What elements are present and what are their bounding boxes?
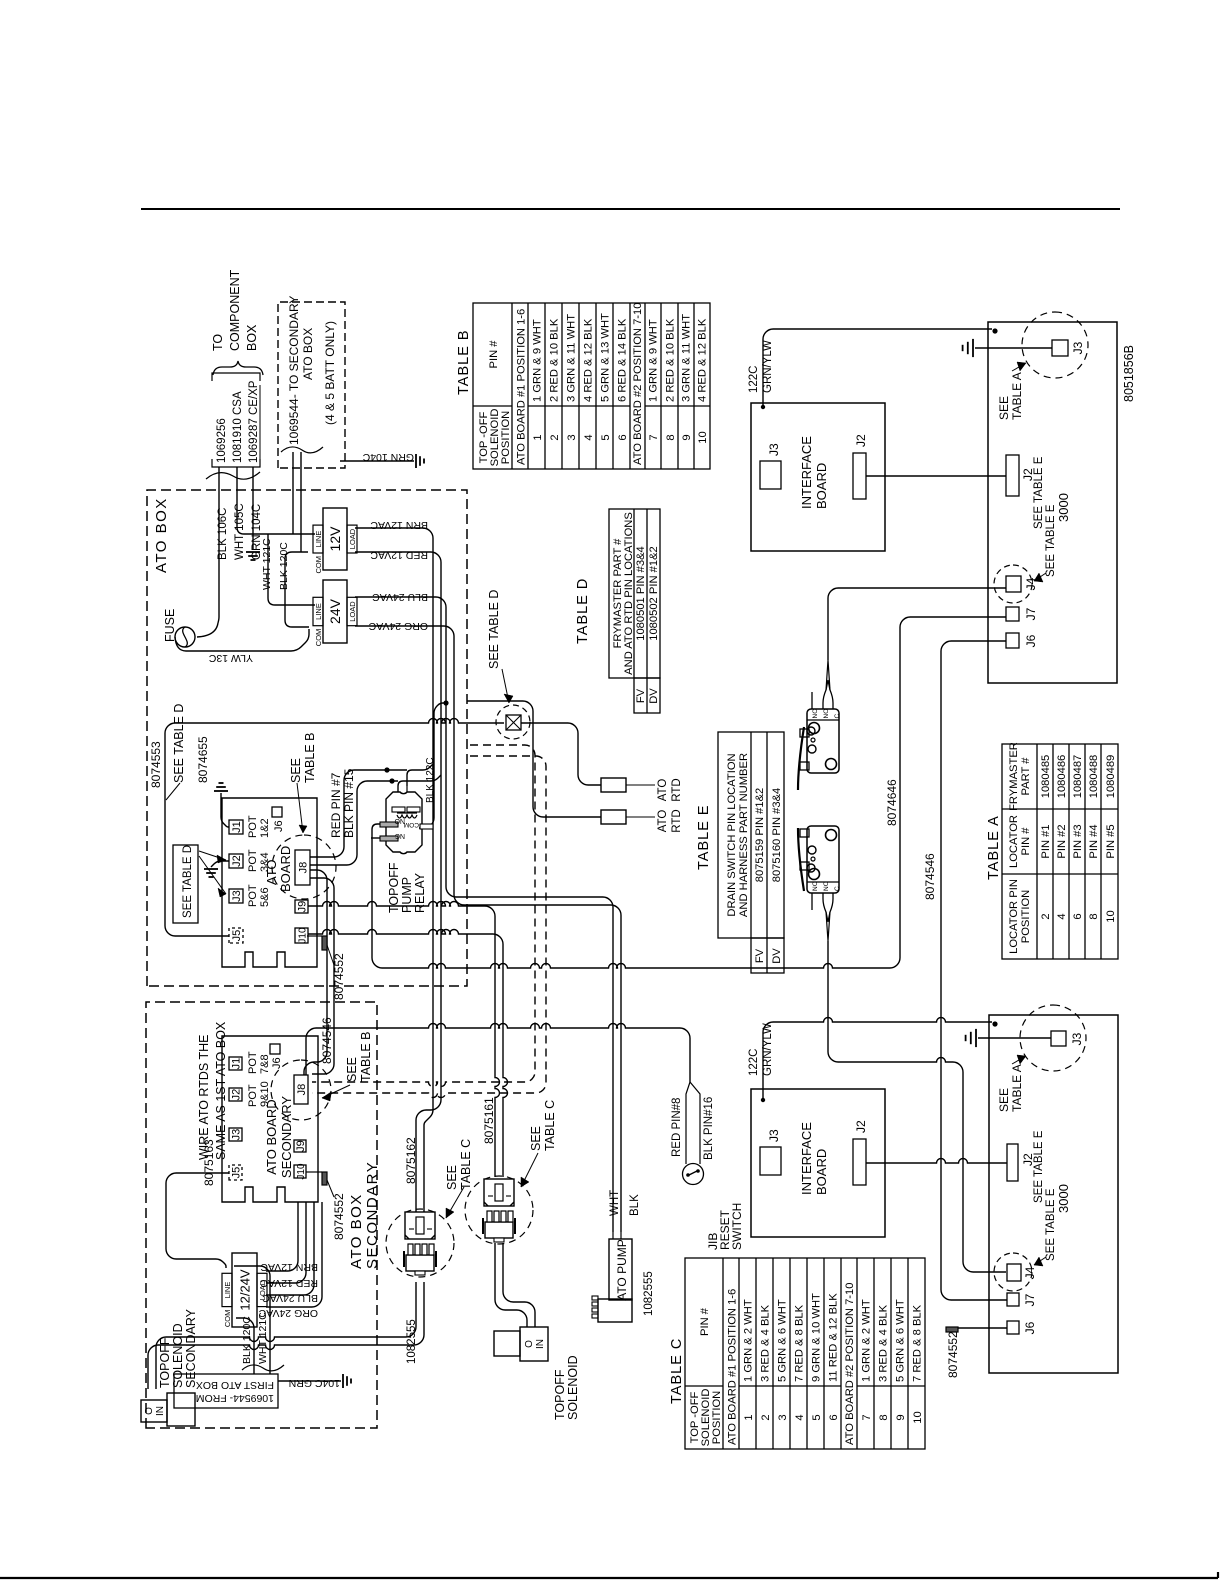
svg-text:1&2: 1&2 (259, 818, 271, 838)
svg-text:J6: J6 (273, 820, 285, 832)
svg-text:7: 7 (648, 434, 660, 440)
svg-text:4: 4 (583, 434, 595, 440)
svg-text:POSITION: POSITION (1020, 890, 1032, 943)
svg-text:1081910 CSA: 1081910 CSA (232, 391, 244, 463)
svg-text:PIN #1: PIN #1 (1040, 824, 1052, 858)
svg-text:ATO BOX: ATO BOX (153, 497, 170, 573)
svg-text:SECONDARY: SECONDARY (279, 1096, 294, 1178)
svg-text:7 RED & 8 BLK: 7 RED & 8 BLK (794, 1304, 806, 1382)
svg-text:7 RED & 8 BLK: 7 RED & 8 BLK (912, 1304, 924, 1382)
svg-text:6 RED & 14 BLK: 6 RED & 14 BLK (617, 318, 629, 402)
svg-text:5&6: 5&6 (259, 887, 271, 907)
svg-text:J3: J3 (1070, 1032, 1084, 1045)
svg-text:8074646: 8074646 (885, 779, 899, 826)
svg-text:RED PIN#8: RED PIN#8 (671, 1098, 683, 1157)
svg-text:J2: J2 (231, 855, 243, 867)
svg-text:SEE: SEE (997, 396, 1011, 420)
svg-text:J3: J3 (767, 443, 781, 456)
svg-text:WHT 121C: WHT 121C (257, 1312, 269, 1364)
svg-text:FV: FV (754, 948, 766, 963)
svg-text:5: 5 (600, 434, 612, 440)
svg-text:J2: J2 (854, 434, 868, 447)
svg-text:GRN 104C: GRN 104C (251, 504, 263, 560)
svg-text:1069256: 1069256 (216, 418, 228, 463)
svg-text:POSITION: POSITION (711, 1391, 723, 1444)
svg-text:J2: J2 (231, 1089, 243, 1101)
svg-text:DRAIN SWITCH PIN LOCATION: DRAIN SWITCH PIN LOCATION (726, 753, 738, 916)
svg-text:SOLENOID: SOLENOID (171, 1323, 185, 1388)
svg-text:3 GRN & 11 WHT: 3 GRN & 11 WHT (566, 314, 578, 402)
svg-text:BLU 24VAC: BLU 24VAC (372, 591, 428, 603)
svg-text:TOPOFF: TOPOFF (158, 1337, 172, 1388)
svg-text:PIN #: PIN # (699, 1307, 711, 1336)
svg-text:8074655: 8074655 (196, 736, 210, 783)
svg-text:TABLE A: TABLE A (1010, 1064, 1024, 1112)
svg-text:RED 12VAC: RED 12VAC (260, 1277, 318, 1289)
svg-text:ATO BOARD #1 POSITION 1-6: ATO BOARD #1 POSITION 1-6 (727, 1289, 739, 1445)
svg-text:ORG 24VAC: ORG 24VAC (368, 620, 428, 632)
svg-text:DV: DV (648, 688, 660, 704)
svg-text:AND ATO RTD PIN LOCATIONS: AND ATO RTD PIN LOCATIONS (623, 512, 635, 675)
svg-text:SEE: SEE (997, 1088, 1011, 1112)
svg-text:TABLE D: TABLE D (575, 578, 591, 644)
svg-text:BRN 12VAC: BRN 12VAC (260, 1261, 318, 1273)
svg-text:RTD: RTD (671, 778, 683, 801)
svg-text:PUMP: PUMP (400, 877, 414, 913)
svg-text:(4 & 5 BATT ONLY): (4 & 5 BATT ONLY) (323, 321, 337, 425)
svg-text:SECONDARY: SECONDARY (184, 1308, 198, 1388)
svg-text:PIN #: PIN # (488, 340, 500, 369)
svg-text:SEE TABLE D: SEE TABLE D (487, 590, 501, 669)
svg-text:POT: POT (247, 815, 259, 838)
svg-text:8074546: 8074546 (923, 853, 937, 900)
svg-text:SEE TABLE E: SEE TABLE E (1033, 1130, 1045, 1203)
svg-text:1069544- FROM: 1069544- FROM (196, 1392, 274, 1404)
svg-text:SWITCH: SWITCH (730, 1203, 744, 1250)
svg-text:PIN #2: PIN #2 (1056, 824, 1068, 858)
svg-text:COM: COM (314, 556, 323, 574)
svg-text:5 GRN & 6 WHT: 5 GRN & 6 WHT (895, 1299, 907, 1382)
svg-text:J6: J6 (271, 1057, 283, 1069)
svg-text:7&8: 7&8 (259, 1054, 271, 1074)
svg-text:J5: J5 (231, 1167, 243, 1179)
svg-text:COM: COM (223, 1310, 232, 1328)
svg-text:NC: NC (812, 709, 819, 719)
svg-text:8: 8 (878, 1414, 890, 1420)
svg-text:PIN #4: PIN #4 (1088, 824, 1100, 858)
svg-text:BLK 120C: BLK 120C (241, 1316, 253, 1364)
svg-text:3: 3 (777, 1414, 789, 1420)
svg-text:FUSE: FUSE (163, 609, 177, 642)
svg-text:J10: J10 (298, 927, 309, 944)
svg-text:1 GRN & 2 WHT: 1 GRN & 2 WHT (861, 1299, 873, 1382)
svg-text:J3: J3 (1071, 341, 1085, 354)
svg-text:POT: POT (247, 1051, 259, 1074)
svg-text:J8: J8 (298, 862, 310, 874)
svg-text:NO: NO (823, 881, 830, 891)
svg-text:1080501 PIN #3&4: 1080501 PIN #3&4 (635, 546, 647, 641)
svg-text:J3: J3 (231, 890, 243, 902)
svg-text:YLW 13C: YLW 13C (208, 652, 253, 664)
svg-text:BLK PIN #15: BLK PIN #15 (342, 768, 356, 838)
svg-text:TABLE B: TABLE B (359, 1032, 373, 1082)
svg-text:6: 6 (1072, 913, 1084, 919)
svg-text:3 RED & 4 BLK: 3 RED & 4 BLK (878, 1304, 890, 1382)
svg-text:9: 9 (681, 434, 693, 440)
svg-text:POT: POT (247, 884, 259, 907)
svg-text:122C: 122C (748, 1049, 760, 1077)
svg-text:1 GRN & 9 WHT: 1 GRN & 9 WHT (648, 319, 660, 402)
svg-text:J8: J8 (296, 1084, 308, 1096)
svg-text:ATO BOARD #2 POSITION 7-10: ATO BOARD #2 POSITION 7-10 (632, 303, 644, 465)
svg-text:11 RED & 12 BLK: 11 RED & 12 BLK (828, 1293, 840, 1382)
svg-text:LOCATOR: LOCATOR (1008, 815, 1020, 868)
svg-text:10: 10 (1105, 910, 1117, 922)
svg-text:TO: TO (211, 334, 225, 351)
svg-text:8074552: 8074552 (332, 953, 346, 1000)
svg-text:PIN #5: PIN #5 (1105, 824, 1117, 858)
svg-text:1: 1 (743, 1414, 755, 1420)
svg-text:8075160 PIN #3&4: 8075160 PIN #3&4 (771, 788, 783, 883)
svg-text:TABLE E: TABLE E (696, 804, 712, 870)
svg-text:3 GRN & 11 WHT: 3 GRN & 11 WHT (681, 314, 693, 402)
svg-text:2 RED & 10 BLK: 2 RED & 10 BLK (665, 318, 677, 402)
svg-text:8: 8 (1088, 913, 1100, 919)
svg-text:TABLE C: TABLE C (459, 1139, 473, 1190)
svg-text:10: 10 (697, 431, 709, 443)
svg-text:J9: J9 (295, 1140, 307, 1152)
svg-text:12/24V: 12/24V (238, 1269, 253, 1311)
svg-text:ATO: ATO (657, 810, 669, 833)
svg-text:J5: J5 (231, 930, 243, 942)
svg-text:ATO BOARD: ATO BOARD (264, 1099, 279, 1174)
svg-text:WHT: WHT (609, 1190, 621, 1216)
svg-text:1082555: 1082555 (406, 1319, 418, 1364)
svg-text:J2: J2 (854, 1120, 868, 1133)
svg-text:4 RED & 12 BLK: 4 RED & 12 BLK (583, 318, 595, 402)
svg-text:POT: POT (247, 1084, 259, 1107)
svg-text:9 GRN & 10 WHT: 9 GRN & 10 WHT (811, 1293, 823, 1382)
svg-text:9: 9 (895, 1414, 907, 1420)
svg-text:J3: J3 (767, 1129, 781, 1142)
svg-text:3000: 3000 (1056, 493, 1071, 522)
svg-text:1080486: 1080486 (1056, 755, 1068, 799)
svg-text:1: 1 (532, 434, 544, 440)
svg-text:3: 3 (566, 434, 578, 440)
svg-text:COM: COM (404, 821, 419, 828)
svg-text:1069544- TO SECONDARY: 1069544- TO SECONDARY (287, 296, 301, 445)
svg-text:SEE TABLE E: SEE TABLE E (1045, 1188, 1057, 1261)
svg-text:8075162: 8075162 (404, 1137, 418, 1184)
svg-text:SEE TABLE D: SEE TABLE D (182, 845, 194, 918)
svg-text:4 RED & 12 BLK: 4 RED & 12 BLK (697, 318, 709, 402)
svg-text:COM: COM (314, 629, 323, 647)
svg-text:SEE TABLE E: SEE TABLE E (1033, 456, 1045, 529)
svg-text:J6: J6 (1024, 634, 1038, 647)
svg-text:104C GRN: 104C GRN (289, 1377, 340, 1389)
svg-text:1080488: 1080488 (1088, 755, 1100, 799)
svg-text:NO: NO (823, 709, 830, 719)
svg-text:2: 2 (549, 434, 561, 440)
svg-text:8074552: 8074552 (332, 1193, 346, 1240)
svg-text:8074553: 8074553 (149, 741, 163, 788)
svg-text:LINE: LINE (223, 1282, 232, 1299)
svg-text:6: 6 (828, 1414, 840, 1420)
svg-text:SEE: SEE (445, 1165, 459, 1190)
svg-text:SEE TABLE E: SEE TABLE E (1045, 504, 1057, 577)
svg-text:1080487: 1080487 (1072, 755, 1084, 799)
svg-text:10: 10 (912, 1411, 924, 1423)
svg-text:TABLE B: TABLE B (303, 733, 317, 783)
svg-text:BOARD: BOARD (814, 1149, 829, 1195)
svg-text:BOARD: BOARD (278, 846, 293, 892)
svg-text:2 RED & 10 BLK: 2 RED & 10 BLK (549, 318, 561, 402)
svg-text:SEE TABLE D: SEE TABLE D (172, 704, 186, 783)
svg-text:WHT 105C: WHT 105C (234, 503, 246, 560)
svg-text:NC: NC (812, 881, 819, 891)
svg-text:2: 2 (1040, 913, 1052, 919)
svg-text:5: 5 (811, 1414, 823, 1420)
svg-text:TABLE C: TABLE C (543, 1100, 557, 1151)
svg-text:9&10: 9&10 (259, 1081, 271, 1107)
svg-text:RELAY: RELAY (413, 872, 427, 913)
svg-text:ATO PUMP: ATO PUMP (615, 1239, 629, 1301)
svg-text:J6: J6 (1023, 1321, 1037, 1334)
svg-text:8075163: 8075163 (202, 1139, 216, 1186)
svg-text:PIN #: PIN # (1020, 827, 1032, 856)
svg-text:LOAD: LOAD (348, 601, 357, 622)
svg-text:J7: J7 (1024, 607, 1038, 620)
svg-text:BOX: BOX (245, 324, 259, 351)
svg-text:6: 6 (617, 434, 629, 440)
svg-text:J1: J1 (231, 821, 243, 833)
svg-text:PART #: PART # (1020, 757, 1032, 796)
svg-text:ATO: ATO (657, 779, 669, 802)
svg-text:NO: NO (394, 817, 405, 824)
svg-text:8: 8 (665, 434, 677, 440)
svg-text:BLK 122C: BLK 122C (425, 757, 436, 803)
svg-text:J1: J1 (231, 1058, 243, 1070)
svg-text:2: 2 (760, 1414, 772, 1420)
svg-text:5 GRN & 6 WHT: 5 GRN & 6 WHT (777, 1299, 789, 1382)
svg-text:ATO BOARD #1 POSITION 1-6: ATO BOARD #1 POSITION 1-6 (516, 309, 528, 465)
svg-text:SOLENOID: SOLENOID (566, 1355, 580, 1420)
svg-text:GRN 104C: GRN 104C (362, 451, 414, 463)
svg-text:SEE: SEE (345, 1057, 359, 1082)
svg-text:DV: DV (771, 948, 783, 964)
svg-text:TABLE B: TABLE B (456, 329, 472, 395)
svg-text:1 GRN & 2 WHT: 1 GRN & 2 WHT (743, 1299, 755, 1382)
svg-text:PIN #3: PIN #3 (1072, 824, 1084, 858)
svg-text:J4: J4 (1023, 1266, 1037, 1279)
svg-text:IN: IN (535, 1339, 546, 1349)
svg-text:TOPOFF: TOPOFF (553, 1369, 567, 1420)
svg-text:SAME AS 1ST ATO BOX: SAME AS 1ST ATO BOX (214, 1021, 228, 1160)
svg-text:8074552: 8074552 (946, 1331, 960, 1378)
svg-text:1080485: 1080485 (1040, 755, 1052, 799)
svg-text:SEE: SEE (529, 1126, 543, 1151)
svg-text:3000: 3000 (1056, 1184, 1071, 1213)
svg-text:J7: J7 (1023, 1293, 1037, 1306)
svg-text:INTERFACE: INTERFACE (799, 1122, 814, 1195)
svg-text:ATO BOX: ATO BOX (301, 328, 315, 380)
svg-text:COMPONENT: COMPONENT (228, 269, 242, 351)
svg-text:BLK: BLK (629, 1194, 641, 1216)
svg-text:4: 4 (1056, 913, 1068, 919)
svg-text:8075159 PIN #1&2: 8075159 PIN #1&2 (754, 788, 766, 883)
svg-text:5 GRN & 13 WHT: 5 GRN & 13 WHT (600, 313, 612, 402)
svg-text:TOPOFF: TOPOFF (387, 862, 401, 913)
svg-text:8051856B: 8051856B (1122, 345, 1136, 402)
svg-text:RED 12VAC: RED 12VAC (370, 549, 428, 561)
svg-text:12V: 12V (327, 526, 343, 552)
svg-text:FV: FV (635, 688, 647, 703)
svg-text:GRN/YLW: GRN/YLW (762, 340, 774, 393)
svg-text:4: 4 (794, 1414, 806, 1420)
svg-text:1080489: 1080489 (1105, 755, 1117, 799)
svg-text:BRN 12VAC: BRN 12VAC (370, 519, 428, 531)
svg-text:RED PIN #7: RED PIN #7 (329, 772, 343, 838)
svg-text:BLK 106C: BLK 106C (217, 508, 229, 560)
svg-text:1080502 PIN #1&2: 1080502 PIN #1&2 (648, 546, 660, 641)
svg-text:NC: NC (395, 832, 405, 839)
svg-text:ATO BOX: ATO BOX (348, 1193, 365, 1269)
svg-text:24V: 24V (327, 598, 343, 624)
svg-text:J10: J10 (296, 1163, 307, 1180)
svg-text:LOAD: LOAD (348, 528, 357, 549)
svg-text:8074546: 8074546 (320, 1017, 334, 1064)
svg-text:GRN/YLW: GRN/YLW (762, 1023, 774, 1076)
svg-text:IN: IN (155, 1406, 166, 1416)
svg-text:TABLE C: TABLE C (669, 1338, 685, 1404)
svg-text:O: O (144, 1407, 155, 1415)
svg-text:1 GRN & 9 WHT: 1 GRN & 9 WHT (532, 319, 544, 402)
svg-text:BLK 120C: BLK 120C (278, 542, 290, 590)
svg-text:SECONDARY: SECONDARY (364, 1161, 381, 1269)
svg-text:INTERFACE: INTERFACE (799, 436, 814, 509)
svg-text:1069287 CE/XP: 1069287 CE/XP (248, 380, 260, 463)
svg-text:SEE: SEE (289, 758, 303, 783)
svg-text:POSITION: POSITION (500, 411, 512, 464)
svg-text:FIRST ATO BOX: FIRST ATO BOX (196, 1379, 274, 1391)
svg-text:AND HARNESS PART NUMBER: AND HARNESS PART NUMBER (738, 753, 750, 917)
svg-text:8075161: 8075161 (482, 1097, 496, 1144)
svg-text:LINE: LINE (314, 531, 323, 548)
svg-text:POT: POT (247, 849, 259, 872)
svg-text:O: O (524, 1340, 535, 1348)
svg-text:3 RED & 4 BLK: 3 RED & 4 BLK (760, 1304, 772, 1382)
svg-text:J3: J3 (231, 1129, 243, 1141)
svg-text:LINE: LINE (314, 603, 323, 620)
svg-text:ATO BOARD #2 POSITION 7-10: ATO BOARD #2 POSITION 7-10 (844, 1283, 856, 1445)
svg-text:BOARD: BOARD (814, 463, 829, 509)
svg-text:RTD: RTD (671, 809, 683, 832)
svg-text:BLU 24VAC: BLU 24VAC (262, 1292, 318, 1304)
svg-text:TABLE A: TABLE A (986, 815, 1002, 880)
svg-text:C: C (834, 714, 841, 719)
svg-text:1082555: 1082555 (643, 1271, 655, 1316)
svg-text:122C: 122C (748, 366, 760, 394)
svg-text:FRYMASTER: FRYMASTER (1008, 742, 1020, 811)
svg-text:C: C (834, 886, 841, 891)
svg-text:LOCATOR PIN: LOCATOR PIN (1008, 879, 1020, 954)
svg-text:TABLE A: TABLE A (1010, 372, 1024, 420)
svg-text:7: 7 (861, 1414, 873, 1420)
svg-text:J9: J9 (297, 901, 309, 913)
svg-text:3&4: 3&4 (259, 852, 271, 872)
svg-text:BLK PIN#16: BLK PIN#16 (703, 1097, 715, 1160)
